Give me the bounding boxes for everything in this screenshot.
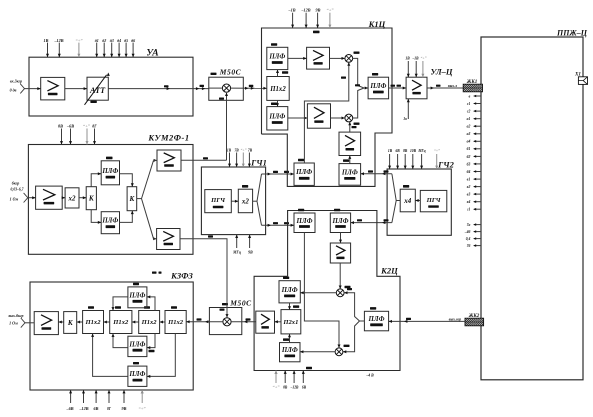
block ГЧ2 xyxy=(387,169,451,235)
svg-text:6В: 6В xyxy=(395,149,400,153)
wire М50С to КЗФЗ xyxy=(186,321,223,323)
wire К2Ц output to ЖК2 xyxy=(389,320,465,322)
wire ПЛФ top to К2 xyxy=(120,174,133,187)
divider П1х2 a xyxy=(83,311,104,334)
divider П1х2 d xyxy=(165,311,186,334)
svg-text:“+”: “+” xyxy=(326,8,334,13)
К1Ц top pins xyxy=(292,13,294,28)
svg-text:ПЛФ: ПЛФ xyxy=(368,316,385,323)
svg-text:ПЛФ: ПЛФ xyxy=(128,341,145,348)
svg-text:–4б: –4б xyxy=(464,230,471,234)
wire КЗФЗ chain c-b xyxy=(132,321,139,323)
svg-text:УЛ–Ц: УЛ–Ц xyxy=(430,67,452,77)
svg-text:д5: д5 xyxy=(124,38,128,43)
svg-text:ПГЧ: ПГЧ xyxy=(426,197,442,204)
wire ПЛФ top bypass xyxy=(147,297,155,311)
amplifier A10 (К2Ц out) xyxy=(256,311,275,333)
svg-text:с2: с2 xyxy=(467,110,471,114)
svg-text:вых.огр: вых.огр xyxy=(449,317,461,321)
multiplier х2 (ГЧ1) xyxy=(238,189,252,213)
wire LO to М50С top mixer xyxy=(226,93,228,160)
wire П1х2 down xyxy=(277,100,279,106)
converter П2х1 xyxy=(281,310,301,334)
svg-text:Х1: Х1 xyxy=(574,71,581,77)
filter ПЛФ (КЗФЗ bottom) xyxy=(128,366,147,386)
svg-text:1В: 1В xyxy=(227,149,232,153)
ГЧ1 top pins xyxy=(229,153,231,168)
svg-text:10В: 10В xyxy=(410,149,417,153)
wire М50С top through xyxy=(209,87,223,89)
mixer М50С top xyxy=(222,84,230,92)
svg-text:–4 В: –4 В xyxy=(365,374,374,378)
mixer М50С bottom xyxy=(223,318,231,326)
svg-text:бкгр: бкгр xyxy=(12,180,20,185)
svg-text:–1В: –1В xyxy=(288,8,296,13)
svg-text:8В: 8В xyxy=(58,124,63,129)
wire LO to М50С bottom xyxy=(180,239,227,318)
svg-text:–12В: –12В xyxy=(78,406,88,411)
block М50С bottom xyxy=(209,308,241,335)
svg-text:–12В: –12В xyxy=(53,38,63,43)
svg-text:1В: 1В xyxy=(44,38,49,43)
svg-text:–1В: –1В xyxy=(412,57,420,61)
wire ПЛФ bottom bypass xyxy=(147,334,175,377)
svg-text:М50С: М50С xyxy=(229,299,252,308)
svg-text:в3: в3 xyxy=(467,193,471,197)
divider П1х2 (К1Ц) xyxy=(267,77,289,101)
wire АТТ output xyxy=(108,88,209,90)
switch К1 xyxy=(86,187,96,210)
wire П2х1-A10 xyxy=(275,321,282,323)
svg-text:6В: 6В xyxy=(94,406,99,411)
svg-text:ПЛФ: ПЛФ xyxy=(101,168,118,175)
wire ПЛФ mid bypass xyxy=(147,334,155,348)
filter ПЛФ (КУМ top) xyxy=(101,161,119,185)
multiplier х2 xyxy=(65,188,79,208)
filter ПЛФ (К1Ц LO1) xyxy=(294,163,314,185)
wire К1 to ПЛФ top xyxy=(91,174,101,187)
wire ПЛФ2-A9 xyxy=(340,233,342,244)
svg-text:а3: а3 xyxy=(467,132,471,136)
svg-text:ГЧ2: ГЧ2 xyxy=(437,160,454,170)
amplifier A3 (КУМ out top) xyxy=(157,150,181,171)
wire ПЛФ3-П2х1 xyxy=(289,303,291,310)
mixer К1Ц 2 xyxy=(345,114,353,122)
filter ПЛФ (К2Ц in1) xyxy=(294,213,315,233)
svg-text:К1Ц: К1Ц xyxy=(368,19,386,29)
svg-text:–12В: –12В xyxy=(300,8,310,13)
filter ПЛФ (К2Ц right) xyxy=(364,311,388,331)
wire ПЛФ4-П2х1 xyxy=(289,334,291,343)
svg-text:ППЖ–Ц: ППЖ–Ц xyxy=(556,29,588,38)
svg-text:М50С: М50С xyxy=(219,68,242,77)
svg-text:вх.3кгр: вх.3кгр xyxy=(10,79,22,84)
К2Ц bottom pins xyxy=(284,371,286,384)
svg-text:“+”: “+” xyxy=(241,148,247,153)
block ГЧ1 xyxy=(201,167,265,235)
mixer К2Ц 1 xyxy=(336,289,344,297)
wire ПГЧ-х2 xyxy=(231,200,238,202)
svg-text:г1: г1 xyxy=(467,208,470,212)
svg-text:П1х2: П1х2 xyxy=(167,319,184,326)
wire КЗФЗ chain d-c xyxy=(160,321,165,323)
svg-text:в4: в4 xyxy=(467,200,471,204)
svg-text:П1х2: П1х2 xyxy=(112,319,129,326)
wire ГЧ1 output bracket xyxy=(253,200,257,202)
wire ПЛФ1-A6 xyxy=(288,57,307,59)
wire ГЧ1 output bottom xyxy=(262,224,295,226)
wire A10 to М50С xyxy=(231,321,256,323)
wire П1х2 up xyxy=(277,70,279,77)
mixer К1Ц 1 xyxy=(345,55,353,63)
filter ПЛФ (К1Ц out) xyxy=(368,77,389,99)
svg-text:ПЛФ: ПЛФ xyxy=(332,218,349,225)
svg-text:“+”: “+” xyxy=(434,148,440,153)
svg-text:1В: 1В xyxy=(405,57,410,61)
wire х2-К1 xyxy=(79,197,86,199)
svg-text:д6: д6 xyxy=(131,38,135,43)
wire ПЛФ bottom to К2 xyxy=(120,211,133,223)
УЛ-Ц bottom pin xyxy=(407,99,409,119)
amplifier A8 (К1Ц LO2) xyxy=(339,132,361,155)
svg-text:х2: х2 xyxy=(68,194,77,202)
svg-text:–12В: –12В xyxy=(290,386,299,390)
svg-text:ПЛФ: ПЛФ xyxy=(369,83,386,90)
amplifier A2 (КУМ) xyxy=(36,186,63,209)
block КУМ2Ф-1 xyxy=(28,145,193,255)
svg-text:7В: 7В xyxy=(248,149,253,153)
svg-text:“+”: “+” xyxy=(83,124,91,129)
block КЗФЗ xyxy=(30,282,193,390)
svg-text:д3: д3 xyxy=(110,38,114,43)
wire ГЧ2 output bottom xyxy=(351,222,392,224)
wire A7-mixer2 xyxy=(331,117,345,119)
svg-text:МГц: МГц xyxy=(417,149,425,153)
svg-text:0 дв: 0 дв xyxy=(10,88,17,93)
wire A6-mixer1 xyxy=(330,57,345,59)
svg-text:8В: 8В xyxy=(403,149,408,153)
svg-text:7а: 7а xyxy=(467,223,471,227)
svg-text:б4: б4 xyxy=(467,170,471,174)
amplifier A5 (КЗФЗ) xyxy=(34,312,58,335)
svg-text:П1х2: П1х2 xyxy=(84,319,101,326)
label on К2Ц bottom edge xyxy=(306,367,312,369)
amplifier УЛ-Ц xyxy=(406,77,427,99)
wire amp-АТТ xyxy=(65,88,87,90)
svg-text:П1х2: П1х2 xyxy=(141,319,158,326)
ГЧ1 bottom pins xyxy=(236,235,238,248)
divider П1х2 c xyxy=(139,311,160,334)
svg-text:б1: б1 xyxy=(467,147,471,151)
svg-text:ГЧ1: ГЧ1 xyxy=(250,158,267,168)
divider П1х2 b xyxy=(110,311,132,334)
svg-text:д1: д1 xyxy=(95,38,99,43)
svg-text:П1х2: П1х2 xyxy=(269,86,286,93)
svg-text:в1: в1 xyxy=(467,178,471,182)
wire ПЛФ right diverge bracket xyxy=(344,293,364,321)
wire КУМ input xyxy=(28,197,36,199)
wire К2 output bracket xyxy=(137,198,142,200)
block ППЖ-Ц xyxy=(481,37,583,380)
wire A8-mixer2 xyxy=(349,122,351,132)
svg-text:ПЛФ: ПЛФ xyxy=(128,371,145,378)
svg-text:П2х1: П2х1 xyxy=(282,319,298,326)
wire ГЧ2 output top xyxy=(361,173,392,175)
svg-text:ПЛФ: ПЛФ xyxy=(268,53,285,60)
block М50С top xyxy=(209,77,244,100)
svg-text:9В: 9В xyxy=(248,251,253,255)
svg-text:1В: 1В xyxy=(388,149,393,153)
amplifier A6 (К1Ц path1) xyxy=(307,47,330,69)
wire ГЧ2 output bracket xyxy=(396,200,400,202)
svg-text:д4: д4 xyxy=(117,38,121,43)
filter ПЛФ (К1Ц LO2) xyxy=(339,164,361,186)
svg-text:ПЛФ: ПЛФ xyxy=(296,218,313,225)
amplifier A9 (К2Ц) xyxy=(330,243,350,263)
svg-text:УА: УА xyxy=(146,49,158,59)
wire amp-х2 xyxy=(62,197,65,199)
svg-text:“+”: “+” xyxy=(138,406,146,411)
svg-text:в2: в2 xyxy=(467,185,471,189)
svg-text:9В: 9В xyxy=(122,406,127,411)
oscillator ПГЧ2 xyxy=(420,190,447,211)
filter ПЛФ (К2Ц mid-top) xyxy=(279,281,300,303)
svg-text:х4: х4 xyxy=(403,197,412,205)
svg-text:д2: д2 xyxy=(102,38,106,43)
switch К2 xyxy=(127,187,137,211)
wire ПГЧ2-х4 xyxy=(415,200,420,202)
svg-text:КЗФЗ: КЗФЗ xyxy=(170,271,193,281)
wire ПЛФ LO2-A8 xyxy=(349,156,351,164)
КУМ top pins xyxy=(61,129,63,145)
filter ПЛФ (КУМ bottom) xyxy=(101,212,119,234)
svg-text:ПЛФ: ПЛФ xyxy=(295,169,312,176)
ГЧ2 top pins xyxy=(389,154,391,169)
КЗФЗ bottom pins xyxy=(70,390,72,403)
attenuator АТТ xyxy=(87,77,108,100)
wire К1Ц out to УЛ-Ц xyxy=(389,87,407,89)
filter ПЛФ (КЗФЗ top) xyxy=(128,287,147,308)
УА top pins xyxy=(47,43,49,58)
УЛ-Ц top pins xyxy=(407,61,409,77)
amplifier A4 (КУМ out bottom) xyxy=(157,229,180,250)
svg-text:“+”: “+” xyxy=(272,385,280,390)
svg-text:1в: 1в xyxy=(403,117,407,121)
svg-text:КУМ2Ф-1: КУМ2Ф-1 xyxy=(147,133,189,143)
svg-text:ЖК2: ЖК2 xyxy=(468,314,480,319)
block К2Ц outline xyxy=(254,211,400,371)
svg-text:–6В: –6В xyxy=(66,124,74,129)
block К1Ц outline xyxy=(262,28,393,186)
svg-text:а2: а2 xyxy=(467,125,471,129)
wire ГЧ1 output top xyxy=(262,173,295,175)
wire mixer outputs converge xyxy=(353,58,368,88)
wire КЗФЗ chain a-К xyxy=(77,321,83,323)
oscillator ПГЧ1 xyxy=(205,190,232,213)
ППЖ-Ц left edge pins group A xyxy=(474,95,481,97)
svg-text:6В: 6В xyxy=(302,386,307,390)
filter ПЛФ (К1Ц path1) xyxy=(267,47,288,69)
filter ПЛФ (КЗФЗ mid) xyxy=(128,336,147,356)
svg-text:ПЛФ: ПЛФ xyxy=(128,292,145,299)
wire ПЛФ1 to mixer2 LO xyxy=(304,233,339,348)
svg-text:х2: х2 xyxy=(241,197,250,205)
svg-text:К2Ц: К2Ц xyxy=(380,266,398,276)
filter ПЛФ (К1Ц path2) xyxy=(267,107,288,130)
svg-text:ПЛФ: ПЛФ xyxy=(281,347,298,354)
svg-text:“+”: “+” xyxy=(75,38,83,43)
filter ПЛФ (К2Ц in2) xyxy=(330,213,350,233)
wire КЗФЗ chain b-a xyxy=(104,321,110,323)
svg-text:ЖК1: ЖК1 xyxy=(466,80,477,85)
wire УА input xyxy=(25,88,41,90)
svg-text:7В: 7В xyxy=(234,149,239,153)
amplifier A7 (К1Ц path2) xyxy=(307,104,330,128)
svg-text:9В: 9В xyxy=(316,8,321,13)
svg-text:7б: 7б xyxy=(467,244,471,248)
ППЖ-Ц left edge pins group B xyxy=(474,224,481,226)
wire mixer1 to ПЛФ3 xyxy=(300,292,336,294)
wire К-amp xyxy=(58,321,63,323)
svg-text:8Г: 8Г xyxy=(92,124,97,129)
multiplier х4 xyxy=(400,189,415,212)
mixer К2Ц 2 xyxy=(335,348,343,356)
svg-text:вых.бкгр: вых.бкгр xyxy=(8,313,23,318)
wire mixer2 to ПЛФ4 xyxy=(300,351,335,353)
svg-text:ПЛФ: ПЛФ xyxy=(101,218,118,225)
block УА xyxy=(29,57,193,116)
svg-text:1 Ом: 1 Ом xyxy=(10,197,19,202)
svg-text:–6В: –6В xyxy=(66,406,74,411)
svg-text:б2: б2 xyxy=(467,155,471,159)
svg-text:8В: 8В xyxy=(283,386,288,390)
connector Х1 xyxy=(578,77,587,85)
switch К3 xyxy=(64,312,77,334)
svg-text:ПЛФ: ПЛФ xyxy=(281,287,298,294)
filter ПЛФ (К2Ц mid-bottom) xyxy=(280,343,301,362)
amplifier A1 (УА) xyxy=(41,77,65,100)
svg-text:МГц: МГц xyxy=(232,251,241,255)
wire A9-mixer1 xyxy=(339,263,341,289)
svg-text:вых.л: вых.л xyxy=(448,84,457,88)
svg-text:0,03–6,7: 0,03–6,7 xyxy=(11,188,24,192)
svg-text:ПЛФ: ПЛФ xyxy=(268,113,285,120)
wire УЛ-Ц output to ЖК1 xyxy=(427,87,463,89)
svg-text:а1: а1 xyxy=(467,117,471,121)
svg-text:с1: с1 xyxy=(467,102,471,106)
wire КЗФЗ output xyxy=(25,322,34,324)
svg-text:б3: б3 xyxy=(467,162,471,166)
svg-text:“+”: “+” xyxy=(421,56,427,61)
svg-text:ПЛФ: ПЛФ xyxy=(341,169,358,176)
wire ПЛФ LO1 to mixer1 xyxy=(304,62,348,163)
wire К1 to ПЛФ bottom xyxy=(91,210,101,223)
svg-text:1 Ом: 1 Ом xyxy=(9,320,18,325)
svg-text:а4: а4 xyxy=(467,140,471,144)
svg-text:0,4: 0,4 xyxy=(466,237,471,241)
wire ПЛФ2-A7 xyxy=(288,117,308,119)
wire amp A3 to LO xyxy=(181,159,227,161)
svg-text:ПГЧ: ПГЧ xyxy=(210,197,226,204)
